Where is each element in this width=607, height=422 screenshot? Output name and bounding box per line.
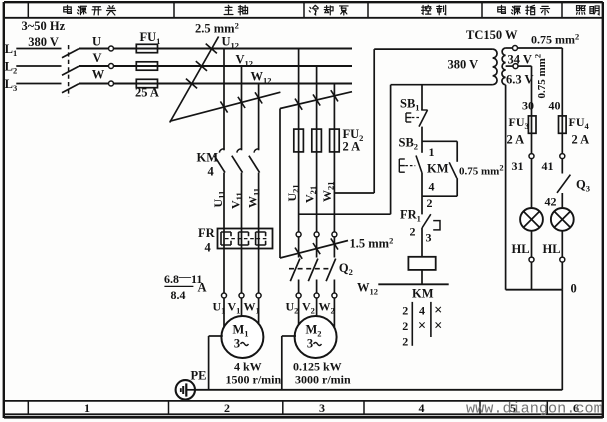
svg-text:2: 2 bbox=[402, 335, 408, 349]
svg-text:3000 r/min: 3000 r/min bbox=[295, 372, 351, 386]
svg-text:2: 2 bbox=[224, 401, 230, 415]
svg-text:3: 3 bbox=[319, 401, 325, 415]
svg-text:1.5 mm2: 1.5 mm2 bbox=[350, 235, 394, 250]
svg-text:25 A: 25 A bbox=[135, 86, 159, 100]
svg-text:KM: KM bbox=[427, 162, 449, 176]
svg-text:4: 4 bbox=[419, 304, 425, 318]
svg-text:2: 2 bbox=[402, 304, 408, 318]
svg-text:2: 2 bbox=[410, 225, 416, 239]
svg-text:2: 2 bbox=[427, 196, 433, 210]
svg-text:HL: HL bbox=[543, 242, 561, 256]
svg-text:2 A: 2 A bbox=[507, 133, 525, 147]
svg-text:8.4: 8.4 bbox=[171, 288, 186, 302]
svg-text:0.75 mm2: 0.75 mm2 bbox=[533, 54, 548, 99]
svg-text:1500 r/min: 1500 r/min bbox=[226, 372, 282, 386]
svg-text:31: 31 bbox=[512, 159, 524, 173]
svg-text:3: 3 bbox=[234, 337, 240, 351]
svg-text:380 V: 380 V bbox=[448, 58, 479, 72]
svg-text:1: 1 bbox=[84, 401, 90, 415]
svg-text:V: V bbox=[92, 51, 101, 65]
svg-text:2 A: 2 A bbox=[572, 133, 590, 147]
svg-text:34 V: 34 V bbox=[508, 53, 532, 67]
svg-text:FR: FR bbox=[198, 226, 216, 240]
svg-text:2: 2 bbox=[402, 319, 408, 333]
svg-text:HL: HL bbox=[512, 242, 530, 256]
svg-text:1: 1 bbox=[429, 145, 435, 159]
svg-text:2.5 mm2: 2.5 mm2 bbox=[195, 20, 239, 35]
svg-text:KM: KM bbox=[412, 287, 434, 301]
svg-text:41: 41 bbox=[542, 159, 554, 173]
svg-text:4: 4 bbox=[205, 241, 212, 255]
svg-text:×: × bbox=[434, 302, 442, 318]
svg-text:380 V: 380 V bbox=[28, 35, 59, 49]
svg-text:40: 40 bbox=[549, 99, 561, 113]
svg-text:www.diangon.com: www.diangon.com bbox=[466, 399, 603, 417]
svg-text:A: A bbox=[198, 281, 207, 295]
svg-text:0: 0 bbox=[571, 282, 577, 296]
svg-text:PE: PE bbox=[191, 369, 207, 383]
svg-text:3: 3 bbox=[426, 231, 432, 245]
svg-text:KM: KM bbox=[197, 151, 219, 165]
svg-text:×: × bbox=[418, 318, 426, 334]
svg-text:3: 3 bbox=[307, 337, 313, 351]
svg-text:W: W bbox=[92, 68, 105, 82]
svg-text:0.75 mm2: 0.75 mm2 bbox=[531, 31, 579, 46]
svg-text:4: 4 bbox=[419, 401, 425, 415]
svg-text:0.75 mm2: 0.75 mm2 bbox=[459, 162, 504, 177]
svg-text:42: 42 bbox=[545, 195, 557, 209]
svg-text:30: 30 bbox=[522, 99, 534, 113]
svg-text:3~50 Hz: 3~50 Hz bbox=[22, 19, 66, 33]
svg-text:2 A: 2 A bbox=[343, 140, 361, 154]
svg-text:4: 4 bbox=[429, 180, 435, 194]
svg-text:4 kW: 4 kW bbox=[234, 359, 262, 373]
svg-text:0.125 kW: 0.125 kW bbox=[293, 359, 342, 373]
svg-text:4: 4 bbox=[208, 165, 215, 179]
svg-text:U: U bbox=[92, 35, 101, 49]
svg-text:TC150 W: TC150 W bbox=[466, 28, 518, 42]
svg-text:×: × bbox=[434, 318, 442, 334]
svg-text:6.3 V: 6.3 V bbox=[506, 73, 534, 87]
